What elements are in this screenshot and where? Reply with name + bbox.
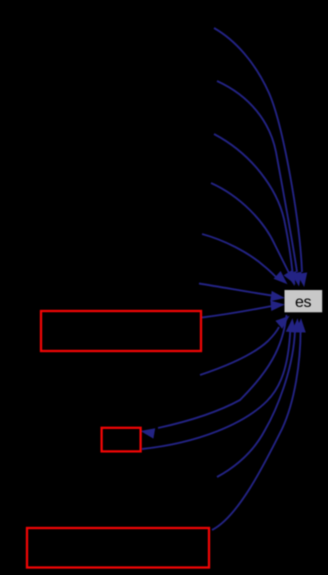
node box2 (truncated, red) <box>102 428 141 452</box>
edge node3->es <box>214 134 293 272</box>
edge es->box2 <box>158 315 287 428</box>
edge box2->es <box>142 330 290 449</box>
node box1 (truncated, red) <box>41 311 201 351</box>
node box3 (truncated, red) <box>27 528 209 568</box>
node es (current, grey) <box>285 290 323 312</box>
edge node7->es <box>200 327 279 375</box>
edge node2->es <box>217 81 297 272</box>
edge box1->es <box>202 306 271 317</box>
edge node4->es <box>211 183 289 273</box>
edge box3->es <box>212 330 301 530</box>
edge node5->es <box>202 234 277 278</box>
svg-text:es: es <box>295 294 312 311</box>
edge node6->es <box>199 284 272 296</box>
edge node1->es <box>214 28 302 272</box>
edge node8->es <box>217 330 295 477</box>
